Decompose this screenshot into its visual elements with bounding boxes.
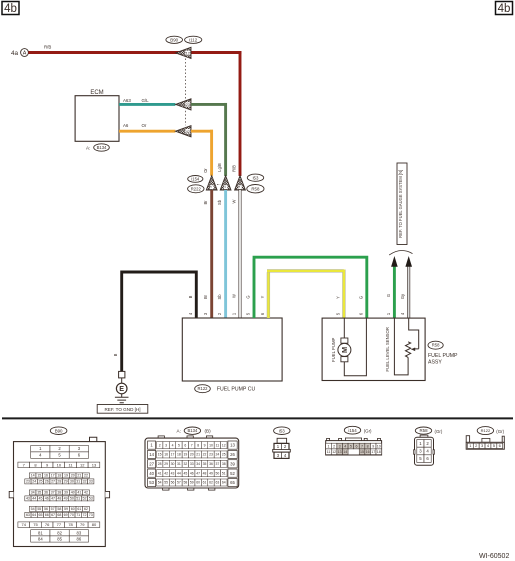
svg-text:30: 30 bbox=[70, 480, 74, 484]
svg-text:54: 54 bbox=[31, 507, 35, 511]
svg-text:47: 47 bbox=[51, 497, 55, 501]
svg-text:62: 62 bbox=[84, 507, 88, 511]
svg-text:63: 63 bbox=[215, 481, 219, 485]
pass-through connector pin 12 (B90/i112) bbox=[176, 47, 192, 58]
svg-text:80: 80 bbox=[92, 522, 97, 527]
page label 4b top-right bbox=[496, 2, 513, 16]
svg-text:31: 31 bbox=[177, 462, 181, 466]
svg-text:83: 83 bbox=[77, 530, 82, 535]
svg-text:11: 11 bbox=[216, 443, 220, 447]
svg-text:15: 15 bbox=[360, 450, 364, 454]
svg-text:Sb: Sb bbox=[217, 199, 222, 205]
svg-text:71: 71 bbox=[76, 513, 80, 517]
svg-text:Y: Y bbox=[260, 295, 265, 298]
svg-text:6: 6 bbox=[184, 443, 186, 447]
svg-text:16: 16 bbox=[366, 450, 370, 454]
svg-text:35: 35 bbox=[203, 462, 207, 466]
svg-text:29: 29 bbox=[164, 462, 168, 466]
svg-text:66: 66 bbox=[45, 513, 49, 517]
svg-text:52: 52 bbox=[82, 497, 86, 501]
svg-text:4: 4 bbox=[344, 444, 346, 448]
svg-text:72: 72 bbox=[82, 513, 86, 517]
svg-text:54: 54 bbox=[158, 481, 162, 485]
node A (4a) bbox=[11, 49, 28, 57]
connector i53 detail drawing bbox=[273, 427, 291, 459]
svg-text:58: 58 bbox=[183, 481, 187, 485]
svg-text:61: 61 bbox=[203, 481, 207, 485]
svg-text:8: 8 bbox=[197, 443, 199, 447]
svg-text:84: 84 bbox=[38, 537, 43, 542]
svg-text:11: 11 bbox=[327, 450, 331, 454]
svg-text:75: 75 bbox=[33, 522, 38, 527]
svg-text:FUEL LEVEL SENSOR: FUEL LEVEL SENSOR bbox=[385, 327, 390, 372]
wire Br to fuel pump CU pin 3 bbox=[203, 190, 212, 318]
svg-text:16: 16 bbox=[44, 474, 48, 478]
svg-text:44: 44 bbox=[32, 497, 36, 501]
svg-text:R/B: R/B bbox=[44, 45, 51, 50]
svg-text:40: 40 bbox=[149, 471, 154, 476]
svg-text:61: 61 bbox=[77, 507, 81, 511]
connector B90 detail drawing bbox=[9, 427, 109, 547]
svg-text:3: 3 bbox=[165, 443, 167, 447]
svg-text:Br: Br bbox=[203, 294, 208, 299]
ECM connector label A: B134 bbox=[86, 144, 109, 151]
svg-text:13: 13 bbox=[230, 443, 235, 448]
svg-text:56: 56 bbox=[171, 481, 175, 485]
fuel pump CU pin numbers bbox=[188, 312, 265, 315]
svg-text:28: 28 bbox=[158, 462, 162, 466]
svg-text:49: 49 bbox=[209, 471, 213, 475]
svg-text:8: 8 bbox=[367, 444, 369, 448]
svg-text:G: G bbox=[246, 295, 251, 298]
svg-text:26: 26 bbox=[230, 452, 235, 457]
svg-text:6: 6 bbox=[355, 444, 357, 448]
svg-text:62: 62 bbox=[209, 481, 213, 485]
svg-text:2: 2 bbox=[223, 186, 227, 188]
ECM box (A: B134) bbox=[75, 90, 119, 141]
wire label Or bbox=[203, 168, 208, 173]
wire Y from CU pin 6 to fuel pump assy pin 5 bbox=[260, 270, 344, 319]
svg-text:49: 49 bbox=[64, 497, 68, 501]
svg-text:i154: i154 bbox=[191, 176, 200, 181]
svg-text:31: 31 bbox=[76, 480, 80, 484]
svg-text:14: 14 bbox=[149, 452, 154, 457]
svg-text:26: 26 bbox=[45, 480, 49, 484]
svg-text:FUEL PUMP: FUEL PUMP bbox=[428, 353, 458, 359]
svg-text:45: 45 bbox=[39, 497, 43, 501]
svg-text:18: 18 bbox=[377, 450, 381, 454]
svg-text:50: 50 bbox=[215, 471, 219, 475]
svg-text:65: 65 bbox=[230, 480, 235, 485]
svg-text:60: 60 bbox=[196, 481, 200, 485]
pass-through connector pin (i154/R222) on Br wire bbox=[206, 176, 217, 190]
svg-text:i112: i112 bbox=[189, 37, 198, 42]
svg-text:(B): (B) bbox=[205, 429, 212, 434]
svg-text:25: 25 bbox=[39, 480, 43, 484]
svg-text:M: M bbox=[340, 347, 349, 353]
svg-text:7: 7 bbox=[191, 443, 193, 447]
connector B90 oval bbox=[166, 36, 183, 43]
connector A: B134 detail drawing bbox=[145, 427, 239, 490]
svg-text:REF. TO FUEL GAUGE SYSTEM [N]: REF. TO FUEL GAUGE SYSTEM [N] bbox=[398, 170, 403, 238]
svg-text:73: 73 bbox=[89, 513, 93, 517]
svg-text:E: E bbox=[119, 384, 124, 393]
svg-text:24: 24 bbox=[32, 480, 36, 484]
svg-text:13: 13 bbox=[338, 450, 342, 454]
connector R222 oval bbox=[188, 185, 204, 193]
svg-text:20: 20 bbox=[190, 453, 194, 457]
svg-text:81: 81 bbox=[38, 530, 43, 535]
connector i154 oval bbox=[188, 176, 203, 183]
svg-text:39: 39 bbox=[230, 461, 235, 466]
pass-through connector pin (i53/R58) on W wire bbox=[235, 176, 246, 190]
wire Gy to fuel gauge system (arrow) bbox=[400, 256, 412, 318]
svg-text:48: 48 bbox=[57, 497, 61, 501]
svg-text:R122: R122 bbox=[481, 428, 491, 433]
wire label Lg/B bbox=[217, 163, 222, 172]
svg-text:33: 33 bbox=[190, 462, 194, 466]
page label 4b top-left bbox=[2, 2, 19, 16]
svg-text:W: W bbox=[231, 294, 236, 298]
svg-text:35: 35 bbox=[37, 491, 41, 495]
svg-text:ASSY: ASSY bbox=[428, 360, 442, 366]
fuel pump assy pin numbers bbox=[335, 312, 405, 315]
ground E symbol bbox=[115, 383, 129, 403]
fuel pump assy box bbox=[322, 318, 425, 380]
svg-text:R58: R58 bbox=[432, 343, 440, 348]
svg-text:33: 33 bbox=[89, 480, 93, 484]
svg-text:12: 12 bbox=[186, 51, 191, 56]
svg-text:78: 78 bbox=[68, 522, 73, 527]
svg-text:B134: B134 bbox=[97, 145, 107, 150]
svg-text:18: 18 bbox=[57, 474, 61, 478]
wire Sb to fuel pump CU pin 2 bbox=[217, 190, 226, 318]
svg-text:59: 59 bbox=[64, 507, 68, 511]
svg-text:50: 50 bbox=[70, 497, 74, 501]
svg-text:10: 10 bbox=[57, 462, 62, 467]
diagram id WI-60502 bbox=[479, 553, 509, 560]
svg-text:41: 41 bbox=[158, 471, 162, 475]
svg-text:52: 52 bbox=[230, 471, 235, 476]
svg-text:63: 63 bbox=[26, 513, 30, 517]
svg-text:64: 64 bbox=[32, 513, 36, 517]
svg-text:B: B bbox=[113, 353, 118, 356]
svg-text:B90: B90 bbox=[170, 37, 178, 42]
svg-text:27: 27 bbox=[149, 461, 154, 466]
svg-text:70: 70 bbox=[70, 513, 74, 517]
svg-text:55: 55 bbox=[37, 507, 41, 511]
connector i112 oval bbox=[185, 36, 202, 43]
ground terminal connector bbox=[119, 371, 125, 383]
svg-text:32: 32 bbox=[82, 480, 86, 484]
svg-text:17: 17 bbox=[51, 474, 55, 478]
svg-text:46: 46 bbox=[190, 471, 194, 475]
svg-text:12: 12 bbox=[222, 443, 226, 447]
svg-text:45: 45 bbox=[183, 471, 187, 475]
wire W to fuel pump CU pin 1 bbox=[231, 190, 240, 318]
svg-text:i53: i53 bbox=[253, 175, 259, 180]
svg-text:17: 17 bbox=[371, 450, 375, 454]
wire label R/B bbox=[231, 165, 236, 172]
svg-text:(Gr): (Gr) bbox=[435, 429, 443, 434]
svg-text:5: 5 bbox=[178, 443, 180, 447]
svg-text:53: 53 bbox=[149, 480, 154, 485]
dashed connector link line bbox=[185, 59, 187, 126]
svg-text:28: 28 bbox=[57, 480, 61, 484]
svg-text:23: 23 bbox=[26, 480, 30, 484]
arc over gauge arrows bbox=[389, 251, 412, 255]
svg-text:20: 20 bbox=[71, 474, 75, 478]
pass-through connector pin 42 (B90/i112) bbox=[176, 126, 192, 137]
svg-text:4b: 4b bbox=[4, 3, 17, 15]
svg-text:55: 55 bbox=[164, 481, 168, 485]
svg-text:R58: R58 bbox=[251, 186, 260, 191]
svg-text:15: 15 bbox=[37, 474, 41, 478]
svg-text:i53: i53 bbox=[279, 428, 285, 433]
svg-text:3: 3 bbox=[339, 444, 341, 448]
svg-text:1: 1 bbox=[328, 444, 330, 448]
svg-text:57: 57 bbox=[177, 481, 181, 485]
svg-text:37: 37 bbox=[51, 491, 55, 495]
svg-text:36: 36 bbox=[209, 462, 213, 466]
svg-text:41: 41 bbox=[77, 491, 81, 495]
svg-text:85: 85 bbox=[57, 537, 62, 542]
separator line bbox=[2, 417, 513, 419]
svg-text:48: 48 bbox=[203, 471, 207, 475]
connector R58 oval bbox=[247, 185, 264, 193]
svg-text:76: 76 bbox=[45, 522, 50, 527]
wire G from CU pin 5 to fuel pump assy pin 6 bbox=[246, 256, 367, 318]
svg-text:40: 40 bbox=[71, 491, 75, 495]
svg-text:64: 64 bbox=[222, 481, 226, 485]
svg-text:77: 77 bbox=[57, 522, 62, 527]
svg-text:51: 51 bbox=[76, 497, 80, 501]
svg-text:22: 22 bbox=[84, 474, 88, 478]
svg-text:2: 2 bbox=[333, 444, 335, 448]
svg-text:A: A bbox=[23, 51, 27, 57]
fuel level sensor resistor wiring bbox=[394, 319, 418, 375]
fuel pump label bbox=[331, 337, 336, 362]
svg-text:56: 56 bbox=[44, 507, 48, 511]
svg-text:22: 22 bbox=[203, 453, 207, 457]
svg-text:58: 58 bbox=[57, 507, 61, 511]
svg-text:W: W bbox=[231, 199, 236, 203]
svg-text:ECM: ECM bbox=[90, 90, 103, 96]
wire G to fuel gauge system (arrow) bbox=[386, 256, 398, 318]
svg-text:21: 21 bbox=[77, 474, 81, 478]
svg-text:53: 53 bbox=[89, 497, 93, 501]
svg-text:R122: R122 bbox=[197, 386, 208, 391]
svg-text:60: 60 bbox=[71, 507, 75, 511]
svg-text:13: 13 bbox=[92, 462, 97, 467]
dashed link between i154 triangles bbox=[217, 184, 220, 186]
svg-text:23: 23 bbox=[186, 102, 191, 107]
svg-text:i154: i154 bbox=[348, 428, 357, 433]
svg-text:65: 65 bbox=[39, 513, 43, 517]
connector i154 detail drawing bbox=[326, 426, 382, 455]
wire G/L from ECM A63 bbox=[119, 98, 175, 104]
fuel level sensor label bbox=[385, 327, 390, 372]
svg-text:G/L: G/L bbox=[142, 98, 150, 103]
svg-text:27: 27 bbox=[51, 480, 55, 484]
svg-text:G: G bbox=[358, 296, 363, 299]
svg-text:Or: Or bbox=[203, 168, 208, 173]
svg-text:3: 3 bbox=[209, 186, 213, 188]
svg-text:14: 14 bbox=[31, 474, 35, 478]
svg-text:17: 17 bbox=[171, 453, 175, 457]
svg-text:Or: Or bbox=[142, 123, 147, 128]
svg-text:43: 43 bbox=[171, 471, 175, 475]
svg-text:FUEL PUMP CU: FUEL PUMP CU bbox=[217, 387, 256, 393]
svg-text:42: 42 bbox=[84, 491, 88, 495]
svg-text:(Gr): (Gr) bbox=[364, 429, 372, 434]
svg-text:74: 74 bbox=[22, 522, 27, 527]
svg-text:(Gr): (Gr) bbox=[496, 429, 504, 434]
svg-text:16: 16 bbox=[164, 453, 168, 457]
fuel pump CU box bbox=[182, 318, 282, 381]
svg-text:B134: B134 bbox=[188, 428, 198, 433]
svg-text:79: 79 bbox=[80, 522, 85, 527]
svg-text:69: 69 bbox=[64, 513, 68, 517]
svg-text:18: 18 bbox=[177, 453, 181, 457]
svg-text:59: 59 bbox=[190, 481, 194, 485]
svg-text:29: 29 bbox=[64, 480, 68, 484]
wire Lg/B from connector to i154 bbox=[191, 103, 227, 176]
svg-text:68: 68 bbox=[57, 513, 61, 517]
svg-text:47: 47 bbox=[196, 471, 200, 475]
svg-text:24: 24 bbox=[215, 453, 219, 457]
svg-text:51: 51 bbox=[222, 471, 226, 475]
ECM pin A6 label bbox=[123, 123, 129, 128]
svg-text:43: 43 bbox=[26, 497, 30, 501]
svg-text:42: 42 bbox=[164, 471, 168, 475]
REF. TO GND box bbox=[97, 405, 148, 414]
svg-text:25: 25 bbox=[222, 453, 226, 457]
svg-text:39: 39 bbox=[64, 491, 68, 495]
svg-text:7: 7 bbox=[361, 444, 363, 448]
svg-text:14: 14 bbox=[343, 450, 347, 454]
connector R122 oval and FUEL PUMP CU label bbox=[195, 385, 256, 393]
svg-text:B90: B90 bbox=[55, 428, 63, 433]
connector R122 detail drawing bbox=[466, 427, 504, 450]
svg-text:Lg/B: Lg/B bbox=[217, 163, 222, 172]
connector R58 oval and FUEL PUMP ASSY label bbox=[428, 341, 458, 365]
svg-text:G: G bbox=[386, 294, 391, 297]
svg-text:4b: 4b bbox=[498, 3, 511, 15]
pass-through connector pin (i154/R222) on Sb wire bbox=[220, 176, 231, 190]
svg-text:37: 37 bbox=[215, 462, 219, 466]
svg-text:B: B bbox=[188, 295, 193, 298]
wire Or from ECM A6 bbox=[119, 123, 175, 131]
svg-text:R58: R58 bbox=[419, 428, 428, 433]
svg-text:2: 2 bbox=[159, 443, 161, 447]
svg-text:4: 4 bbox=[172, 443, 174, 447]
svg-text:WI-60502: WI-60502 bbox=[479, 553, 509, 560]
svg-text:5: 5 bbox=[350, 444, 352, 448]
fuel pump motor M1 bbox=[338, 319, 367, 376]
svg-text:34: 34 bbox=[196, 462, 200, 466]
svg-text:A63: A63 bbox=[123, 98, 131, 103]
svg-text:Br: Br bbox=[203, 200, 208, 205]
svg-text:36: 36 bbox=[44, 491, 48, 495]
svg-text:Y: Y bbox=[335, 296, 340, 299]
svg-text:82: 82 bbox=[57, 530, 62, 535]
svg-text:A:: A: bbox=[177, 429, 181, 434]
svg-text:38: 38 bbox=[222, 462, 226, 466]
svg-text:FUEL PUMP: FUEL PUMP bbox=[331, 337, 336, 362]
svg-text:12: 12 bbox=[80, 462, 85, 467]
svg-text:86: 86 bbox=[77, 537, 82, 542]
wire Or from connector to i154 bbox=[191, 130, 213, 176]
svg-text:9: 9 bbox=[204, 443, 206, 447]
ECM pin A63 label bbox=[123, 98, 131, 103]
connector R58 detail drawing bbox=[413, 427, 442, 465]
svg-text:42: 42 bbox=[186, 129, 191, 134]
svg-text:4a: 4a bbox=[11, 50, 19, 57]
svg-text:12: 12 bbox=[332, 450, 336, 454]
svg-text:46: 46 bbox=[45, 497, 49, 501]
svg-text:19: 19 bbox=[183, 453, 187, 457]
svg-text:Sb: Sb bbox=[217, 294, 222, 300]
svg-text:34: 34 bbox=[31, 491, 35, 495]
wire R/B from node A to connector i53 bbox=[28, 45, 241, 176]
svg-text:57: 57 bbox=[51, 507, 55, 511]
svg-text:REF. TO GND [H]: REF. TO GND [H] bbox=[104, 407, 140, 412]
wire B from fuel pump CU pin 4 to ground bbox=[113, 272, 196, 371]
svg-text:67: 67 bbox=[51, 513, 55, 517]
REF. TO FUEL GAUGE SYSTEM box bbox=[397, 163, 407, 245]
svg-text:4: 4 bbox=[237, 186, 241, 188]
svg-text:10: 10 bbox=[377, 444, 381, 448]
svg-text:R/B: R/B bbox=[231, 165, 236, 172]
svg-text:38: 38 bbox=[57, 491, 61, 495]
svg-text:15: 15 bbox=[158, 453, 162, 457]
pass-through connector pin 23 (B90/i112) bbox=[176, 99, 192, 110]
svg-text:44: 44 bbox=[177, 471, 181, 475]
svg-text:30: 30 bbox=[171, 462, 175, 466]
svg-text:10: 10 bbox=[209, 443, 213, 447]
svg-text:9: 9 bbox=[372, 444, 374, 448]
svg-text:32: 32 bbox=[183, 462, 187, 466]
svg-text:19: 19 bbox=[64, 474, 68, 478]
svg-text:21: 21 bbox=[196, 453, 200, 457]
svg-text:R222: R222 bbox=[191, 186, 202, 191]
connector i53 oval bbox=[247, 174, 263, 181]
svg-text:A:: A: bbox=[86, 145, 90, 150]
svg-text:A6: A6 bbox=[123, 123, 129, 128]
svg-text:23: 23 bbox=[209, 453, 213, 457]
